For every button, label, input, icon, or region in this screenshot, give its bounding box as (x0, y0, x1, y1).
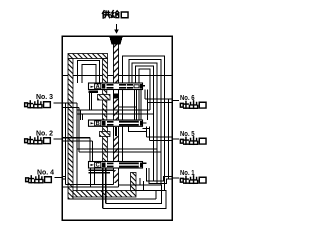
channel legs between spool A and B (right of gallery) (123, 90, 142, 162)
bottom wall hatch band (73, 173, 136, 198)
svg-text:C: C (96, 163, 100, 169)
dark core below spool B (115, 127, 117, 136)
top-right nested channel loops (123, 56, 165, 191)
channel below spool C (89, 170, 114, 173)
small hatch block below spool B (100, 132, 111, 137)
No.3 discharge label (25, 94, 62, 108)
No.6 discharge channel (from A end) (145, 90, 172, 121)
svg-text:No. 5: No. 5 (180, 131, 195, 138)
left long channel line (65, 103, 67, 185)
bore end exit stubs (143, 86, 150, 163)
spool C (89, 162, 143, 169)
parting line (62, 75, 172, 77)
No.1 discharge channel (from C end) (147, 168, 173, 184)
spool A (89, 83, 143, 90)
bottom-left channels (No.4 route) (62, 177, 119, 188)
A-B inter channel (77, 91, 154, 120)
No.4 discharge label (26, 170, 62, 183)
svg-text:A: A (96, 84, 100, 90)
bottom-right wrap channels (69, 168, 167, 209)
supply port label 供給口 (102, 11, 128, 18)
supply arrow (116, 24, 118, 30)
black node below spool A (113, 94, 118, 99)
No.2 discharge label (25, 131, 62, 144)
small hatch block below spool A (98, 95, 111, 101)
stub below spool B (129, 126, 147, 131)
No.2 discharge channel (62, 138, 93, 162)
No.5 discharge label (172, 131, 206, 144)
channel loops above spool A (inside left frame) (78, 61, 100, 84)
secondary gallery hatched (between spools) (103, 90, 108, 162)
connector gallery to legs (A-B zone) (119, 106, 137, 108)
svg-text:B: B (96, 121, 100, 127)
right edge long channel (168, 99, 170, 179)
black throat below inlet (114, 45, 119, 50)
No.3 discharge channel (62, 103, 79, 191)
No.6 discharge label (172, 95, 206, 108)
inlet port (black) (110, 37, 123, 45)
No.1 discharge label (172, 170, 206, 183)
svg-text:No. 6: No. 6 (180, 95, 195, 102)
No.5 discharge channel (from B end) (147, 126, 173, 140)
supply gallery vertical channel (114, 45, 119, 188)
light hatch in gallery below C (114, 170, 118, 183)
svg-text:No. 1: No. 1 (180, 170, 195, 177)
B-C inter channel (77, 149, 161, 152)
spool B (89, 120, 143, 127)
gallery continuation below spool C to bottom wrap (103, 168, 106, 209)
body outline (62, 36, 172, 220)
left wall hatched frame (68, 54, 108, 200)
